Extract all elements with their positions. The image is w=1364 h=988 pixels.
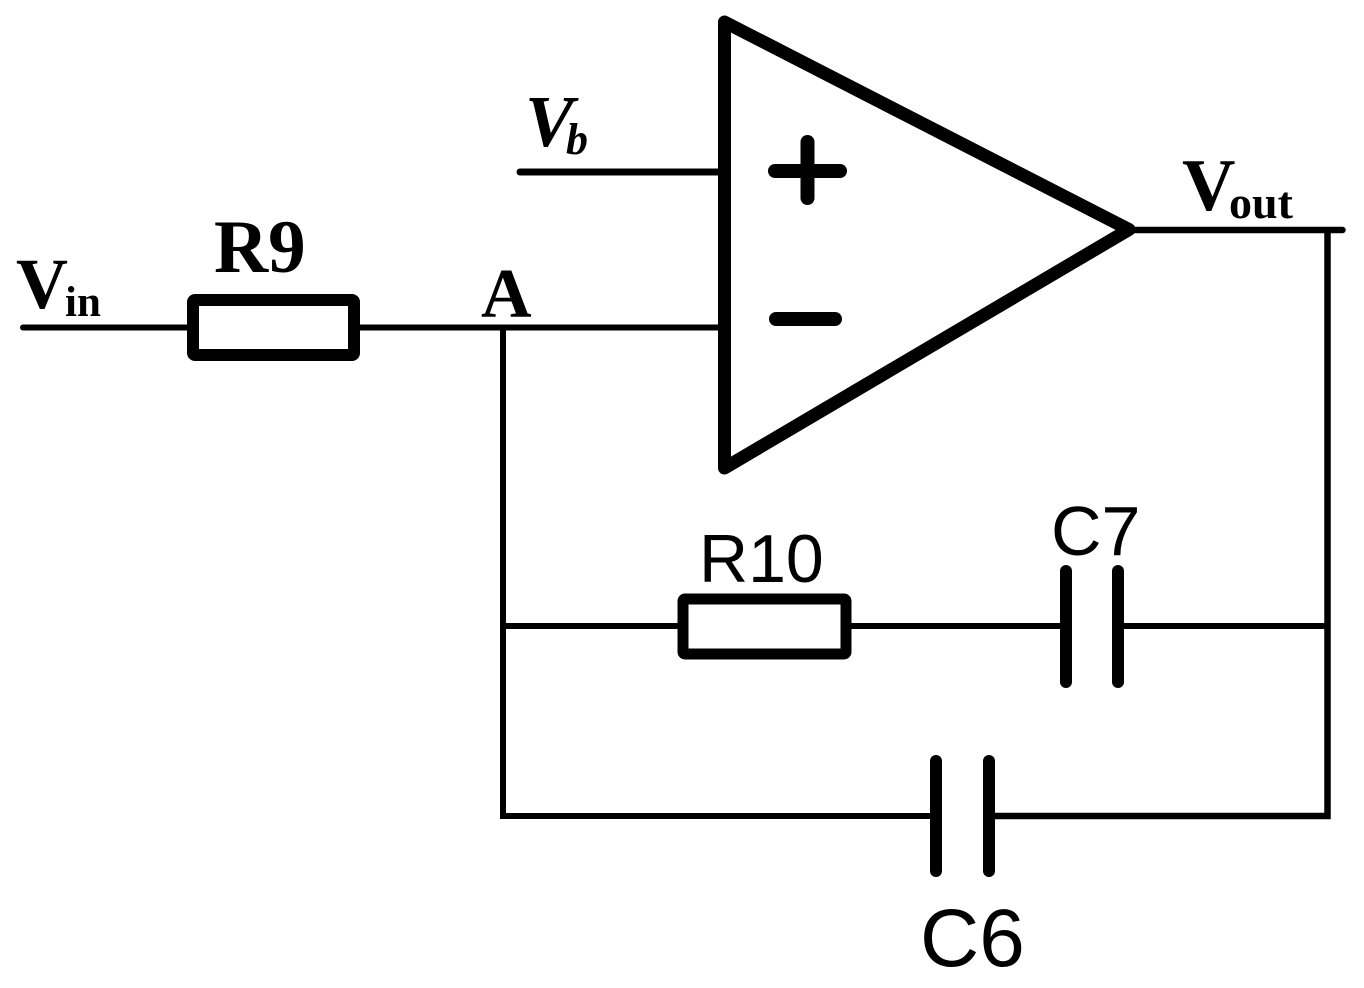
svg-text:R10: R10 [699,521,824,597]
svg-text:b: b [566,115,588,164]
svg-text:C6: C6 [920,893,1025,984]
svg-text:V: V [16,244,68,324]
svg-text:C7: C7 [1051,492,1140,570]
svg-text:A: A [481,256,532,333]
svg-text:out: out [1229,177,1294,228]
svg-text:R9: R9 [214,206,306,289]
svg-text:V: V [1182,145,1235,227]
svg-text:in: in [65,279,101,326]
